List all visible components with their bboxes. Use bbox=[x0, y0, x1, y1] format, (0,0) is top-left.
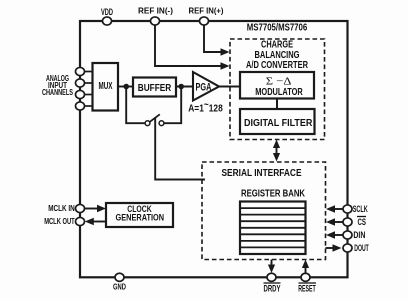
wire double arrow converter-serial interface bbox=[276, 146, 278, 155]
svg-text:REF IN(-): REF IN(-) bbox=[138, 6, 173, 16]
wire DIN arrow into serial interface bbox=[334, 234, 343, 236]
switch bypass contacts bbox=[145, 121, 150, 126]
pins on borders bbox=[76, 17, 353, 281]
svg-text:MCLK IN: MCLK IN bbox=[48, 204, 75, 213]
pin VDD bbox=[103, 17, 112, 25]
block BUFFER bbox=[133, 78, 176, 97]
wire CS arrow into serial interface bbox=[334, 221, 343, 223]
chip boundary border bbox=[80, 21, 348, 277]
dashed box charge balancing A/D converter bbox=[230, 39, 325, 140]
wire MCLK OUT arrow out of clock generation bbox=[93, 221, 106, 223]
wire MCLK IN arrow into clock generation bbox=[84, 208, 98, 210]
svg-text:DIN: DIN bbox=[353, 230, 365, 240]
pin CS bbox=[343, 218, 352, 226]
wire DOUT arrow out of serial interface bbox=[326, 247, 334, 249]
svg-text:Σ −Δ: Σ −Δ bbox=[266, 76, 292, 88]
wire REF IN(+) to converter bbox=[204, 21, 222, 52]
svg-text:MUX: MUX bbox=[99, 80, 113, 92]
amplifier PGA bbox=[193, 72, 219, 101]
arrow into converter from REF IN(+) bbox=[221, 48, 230, 56]
wire bypass switch left leg bbox=[126, 87, 145, 124]
pin RESET bbox=[301, 273, 310, 281]
svg-text:REGISTER BANK: REGISTER BANK bbox=[241, 189, 306, 200]
pin REF IN(+) bbox=[200, 17, 209, 25]
svg-text:RESET: RESET bbox=[298, 283, 316, 294]
pin AIN4 bbox=[76, 102, 85, 110]
svg-text:CHANNELS: CHANNELS bbox=[42, 88, 73, 97]
svg-text:GND: GND bbox=[113, 281, 126, 291]
wire RESET arrow up into serial interface bbox=[305, 268, 307, 273]
block sigma-delta modulator bbox=[240, 72, 314, 99]
svg-text:MODULATOR: MODULATOR bbox=[255, 87, 303, 98]
block register bank bbox=[240, 202, 306, 255]
svg-text:VDD: VDD bbox=[101, 7, 113, 17]
pin MCLK OUT bbox=[76, 217, 85, 225]
block MUX bbox=[93, 63, 119, 111]
svg-text:CS: CS bbox=[358, 217, 367, 227]
svg-text:DRDY: DRDY bbox=[264, 283, 281, 294]
svg-text:REF IN(+): REF IN(+) bbox=[189, 6, 224, 16]
wire modulator to digital filter bbox=[276, 99, 278, 109]
svg-text:A/D CONVERTER: A/D CONVERTER bbox=[246, 60, 309, 71]
wire DRDY arrow down to pin bbox=[271, 260, 273, 266]
svg-text:DOUT: DOUT bbox=[354, 243, 369, 253]
wire buffer to PGA bbox=[176, 86, 193, 88]
arrow into converter from REF IN(-) bbox=[221, 62, 230, 70]
svg-text:MS7705/MS7706: MS7705/MS7706 bbox=[247, 22, 308, 34]
register bank row lines bbox=[240, 208, 306, 247]
svg-text:SCLK: SCLK bbox=[353, 204, 368, 214]
svg-text:MCLK OUT: MCLK OUT bbox=[44, 217, 75, 226]
node junction dot right bbox=[178, 84, 184, 90]
pin DIN bbox=[343, 231, 352, 239]
node junction dot left bbox=[123, 84, 129, 90]
wire PGA to modulator bbox=[219, 86, 240, 88]
pin GND bbox=[115, 273, 124, 281]
pin MCLK IN bbox=[76, 204, 85, 212]
wire SCLK arrow into serial interface bbox=[334, 208, 343, 210]
svg-text:PGA: PGA bbox=[196, 82, 212, 94]
pin AIN3 bbox=[76, 90, 85, 98]
pin AIN2 bbox=[76, 79, 85, 87]
svg-text:BUFFER: BUFFER bbox=[138, 82, 172, 94]
wire MUX output to buffer bbox=[118, 86, 133, 88]
pin AIN1 bbox=[76, 67, 85, 75]
wire AIN stubs to MUX bbox=[84, 72, 92, 107]
pin DOUT bbox=[343, 244, 352, 252]
svg-text:GENERATION: GENERATION bbox=[116, 212, 165, 222]
pin SCLK bbox=[343, 205, 352, 213]
wire bypass switch right leg bbox=[164, 87, 181, 124]
svg-text:SERIAL INTERFACE: SERIAL INTERFACE bbox=[222, 168, 302, 179]
block clock generation bbox=[106, 203, 173, 227]
dashed box serial interface bbox=[202, 162, 326, 260]
block digital filter bbox=[240, 109, 315, 134]
pin REF IN(-) bbox=[151, 17, 160, 25]
wire REF IN(-) to converter bbox=[155, 21, 222, 66]
wire switch control to serial interface bbox=[155, 118, 205, 180]
pin DRDY bbox=[267, 273, 276, 281]
svg-text:DIGITAL FILTER: DIGITAL FILTER bbox=[244, 118, 313, 129]
switch lever bbox=[149, 114, 160, 122]
